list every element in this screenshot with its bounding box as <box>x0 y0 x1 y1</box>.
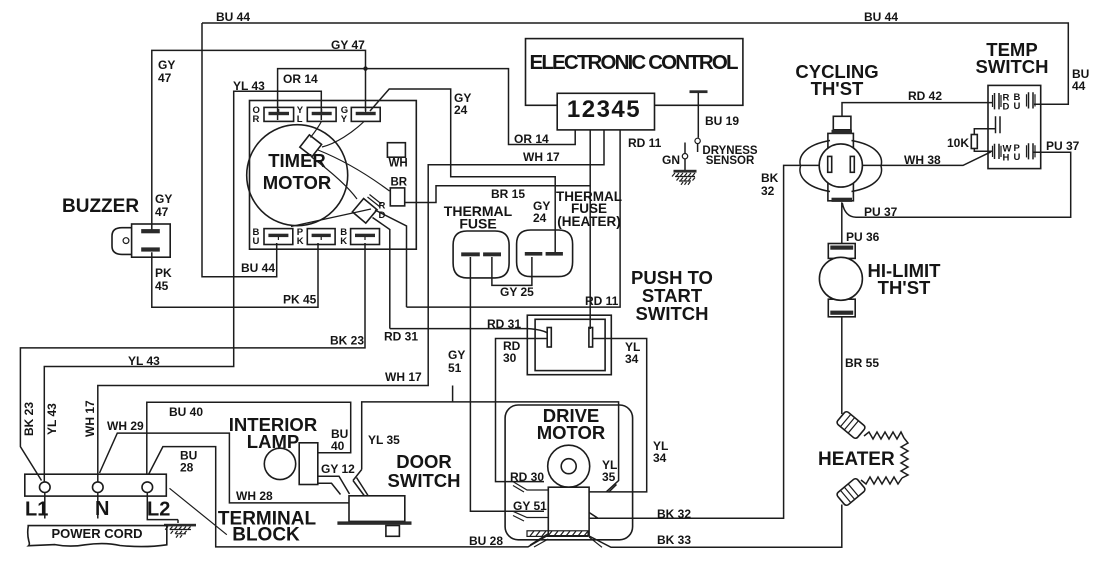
svg-text:H: H <box>1003 153 1010 164</box>
svg-text:BK 33: BK 33 <box>657 533 691 547</box>
svg-text:44: 44 <box>1072 79 1086 93</box>
timer terminal BK <box>340 227 379 247</box>
svg-text:PK: PK <box>155 266 172 280</box>
resistor 10K <box>971 135 977 149</box>
cycling thermostat petals <box>800 141 882 192</box>
wire PK 45 buzzer to timer PK terminal <box>152 243 318 307</box>
wire RD 42 cycling thermostat to temp switch <box>842 103 992 117</box>
svg-text:GY 25: GY 25 <box>500 285 534 299</box>
wire PU 36 cycling to hi-limit <box>841 202 843 243</box>
thermal fuse heater F2 contacts <box>525 252 543 256</box>
power cord box <box>28 526 167 547</box>
svg-text:D: D <box>379 210 386 221</box>
svg-text:MOTOR: MOTOR <box>263 172 332 193</box>
terminal block pointer line <box>170 488 227 534</box>
svg-text:SWITCH: SWITCH <box>388 470 461 491</box>
svg-text:35: 35 <box>602 470 616 484</box>
svg-text:SWITCH: SWITCH <box>636 303 709 324</box>
buzzer <box>112 224 170 257</box>
svg-text:RD 42: RD 42 <box>908 89 942 103</box>
temp switch box <box>988 85 1041 168</box>
wire PU 37 temp switch to cycling thermostat <box>842 152 1070 217</box>
svg-text:BK 32: BK 32 <box>657 507 691 521</box>
svg-text:GY: GY <box>158 58 175 72</box>
timer terminal OR <box>253 105 294 125</box>
svg-text:PU 36: PU 36 <box>846 230 880 244</box>
timer motor box <box>250 101 417 250</box>
timer contact WH <box>387 143 405 158</box>
svg-text:BUZZER: BUZZER <box>62 196 139 217</box>
svg-text:YL 43: YL 43 <box>128 354 160 368</box>
svg-text:GY 47: GY 47 <box>331 38 365 52</box>
electronic control terminal strip 1 2 3 4 5 <box>557 93 654 130</box>
svg-text:BLOCK: BLOCK <box>232 525 300 546</box>
terminal L1 <box>40 482 51 493</box>
svg-text:PK 45: PK 45 <box>283 293 317 307</box>
svg-text:BR 15: BR 15 <box>491 187 525 201</box>
svg-text:47: 47 <box>158 71 172 85</box>
svg-text:SWITCH: SWITCH <box>976 56 1049 77</box>
wire GY 25 thermal fuse to thermal fuse heater <box>492 257 532 285</box>
svg-text:L: L <box>297 114 303 125</box>
svg-text:L1: L1 <box>25 499 48 521</box>
cycling thermostat body rect <box>828 133 854 200</box>
svg-text:BU 19: BU 19 <box>705 114 739 128</box>
wire BK 32 cycling to drive motor <box>589 165 828 518</box>
wire BU 44 top run <box>202 23 1068 104</box>
drive motor notches <box>513 482 602 548</box>
terminal N <box>93 482 104 493</box>
svg-text:RD 11: RD 11 <box>585 294 619 308</box>
temp switch terminal RD <box>993 93 1010 113</box>
svg-text:R: R <box>253 114 260 125</box>
svg-text:RD 30: RD 30 <box>510 470 544 484</box>
svg-text:BK 23: BK 23 <box>330 334 364 348</box>
svg-text:N: N <box>95 498 109 520</box>
svg-text:U: U <box>1014 101 1021 112</box>
wire 10K resistor branch <box>974 129 995 152</box>
svg-text:28: 28 <box>180 461 194 475</box>
svg-text:YL 43: YL 43 <box>233 79 265 93</box>
svg-text:K: K <box>340 236 347 247</box>
svg-text:GY: GY <box>448 348 465 362</box>
wire GY 12 lamp to door switch lever <box>319 476 350 494</box>
svg-text:BR 55: BR 55 <box>845 356 879 370</box>
wire BU 19 dryness sensor <box>690 90 708 152</box>
svg-text:BK 23: BK 23 <box>22 402 36 436</box>
temp switch terminal WH <box>993 144 1012 164</box>
timer motor cam circle <box>247 125 348 226</box>
wire GY 51 thermal fuse to drive motor <box>470 257 544 511</box>
svg-text:RD 31: RD 31 <box>487 317 521 331</box>
svg-text:24: 24 <box>533 211 547 225</box>
svg-text:(HEATER): (HEATER) <box>557 214 621 229</box>
svg-text:BU 40: BU 40 <box>169 405 203 419</box>
svg-text:BU 44: BU 44 <box>864 10 898 24</box>
push to start left pin <box>547 328 551 348</box>
svg-text:TH'ST: TH'ST <box>811 78 864 99</box>
timer terminal GY <box>341 105 380 125</box>
hi-limit thermostat bottom terminal <box>828 299 855 317</box>
svg-text:12345: 12345 <box>567 96 641 123</box>
wire WH 38 cycling thermostat to temp switch <box>853 152 991 166</box>
svg-text:45: 45 <box>155 279 169 293</box>
terminal block stubs <box>45 493 178 520</box>
svg-text:ELECTRONIC CONTROL: ELECTRONIC CONTROL <box>530 51 739 74</box>
svg-text:RD 31: RD 31 <box>384 330 418 344</box>
terminal block body <box>25 474 167 496</box>
svg-text:SENSOR: SENSOR <box>706 155 755 167</box>
svg-text:WH 28: WH 28 <box>236 489 273 503</box>
svg-text:WH: WH <box>389 158 408 170</box>
svg-text:OR 14: OR 14 <box>283 72 318 86</box>
wire RD 11 timer RD to control terminal 4 <box>375 129 620 307</box>
svg-text:WH 38: WH 38 <box>904 153 941 167</box>
thermal fuse F1 body <box>453 231 509 278</box>
svg-text:DOOR: DOOR <box>396 451 452 472</box>
temp switch middle terminal <box>996 116 1001 133</box>
wire BU 28 L2 to drive motor bottom <box>149 447 549 547</box>
svg-text:LAMP: LAMP <box>247 431 299 452</box>
svg-text:40: 40 <box>331 439 345 453</box>
svg-text:L2: L2 <box>147 499 170 521</box>
svg-text:32: 32 <box>761 184 775 198</box>
wire GN ground stub <box>672 143 697 185</box>
svg-text:GY: GY <box>155 192 172 206</box>
drive motor M1 body <box>505 405 632 540</box>
door switch S2 body <box>349 496 405 522</box>
timer terminal YL <box>297 105 336 125</box>
svg-text:YL 43: YL 43 <box>45 403 59 435</box>
hi-limit thermostat disc <box>819 257 862 300</box>
wire BK 33 heater to drive motor <box>589 505 842 548</box>
node junction GY47 x OR14 <box>363 66 367 70</box>
svg-text:HEATER: HEATER <box>818 449 895 470</box>
wire BR 15 timer BR terminal to control terminal 2 and push-to-start <box>405 129 591 329</box>
push to start right pin <box>589 328 593 348</box>
svg-text:U: U <box>1014 152 1021 163</box>
svg-text:U: U <box>253 236 260 247</box>
svg-text:MOTOR: MOTOR <box>537 422 606 443</box>
svg-text:D: D <box>1003 102 1010 113</box>
svg-text:WH 17: WH 17 <box>83 400 97 437</box>
wire GY 24 timer GY terminal to thermal fuse heater <box>370 89 555 252</box>
timer cam curves <box>311 121 322 137</box>
svg-text:10K: 10K <box>947 136 969 150</box>
svg-text:51: 51 <box>448 361 462 375</box>
svg-text:WH 29: WH 29 <box>107 419 144 433</box>
wire YL 35 door switch to drive motor <box>353 402 619 492</box>
thermal fuse heater F2 body <box>517 230 573 277</box>
heater element zigzag <box>861 432 908 484</box>
drive motor rotor <box>548 445 590 487</box>
door switch base plate <box>337 521 411 524</box>
wire BU 44 left leg to timer BU terminal <box>202 23 277 277</box>
timer contact RD diamond <box>352 198 377 223</box>
wire BK 23 timer BK terminal to L1 <box>20 243 365 481</box>
svg-text:K: K <box>297 236 304 247</box>
svg-text:RD 11: RD 11 <box>628 136 662 150</box>
timer cam follower diamond top <box>300 135 322 157</box>
svg-text:TIMER: TIMER <box>268 150 326 171</box>
drive motor bottom hatch <box>527 531 588 537</box>
hi-limit thermostat top terminal <box>828 244 855 259</box>
svg-text:FUSE: FUSE <box>459 216 496 232</box>
electronic control U1 box <box>526 39 743 106</box>
cycling thermostat disc <box>819 144 862 187</box>
wire GY 47 buzzer to timer GY terminal <box>152 50 366 231</box>
svg-text:GN: GN <box>662 153 680 167</box>
svg-text:24: 24 <box>454 103 468 117</box>
svg-text:BK: BK <box>761 171 779 185</box>
cycling thermostat top terminal <box>833 116 851 130</box>
heater top insulator <box>836 411 866 440</box>
wire BR 55 hi-limit to heater <box>841 317 843 414</box>
temp switch terminal PU <box>1014 143 1036 163</box>
svg-text:PU 37: PU 37 <box>864 205 898 219</box>
wire YL 43 timer YL terminal to L1 <box>44 91 321 482</box>
door switch foot <box>386 526 400 537</box>
svg-text:OR 14: OR 14 <box>514 132 549 146</box>
door switch lever <box>353 478 368 497</box>
temp switch terminal BU <box>1014 92 1036 112</box>
svg-text:POWER CORD: POWER CORD <box>52 526 143 541</box>
timer terminal BU <box>253 227 293 247</box>
svg-text:WH 17: WH 17 <box>523 150 560 164</box>
wire RD 31 to push-to-start left pin <box>373 218 548 334</box>
cycling thermostat contacts <box>828 156 832 172</box>
chassis ground at L2 <box>164 520 196 538</box>
svg-text:BU 44: BU 44 <box>241 261 275 275</box>
push to start switch S1 inner <box>535 319 605 370</box>
svg-text:GY 12: GY 12 <box>321 462 355 476</box>
drive motor switch box <box>548 487 589 536</box>
svg-text:47: 47 <box>155 205 169 219</box>
svg-text:PU 37: PU 37 <box>1046 139 1080 153</box>
wire WH 17 control terminal 3 to N <box>98 129 604 482</box>
svg-text:BR: BR <box>391 177 408 189</box>
wire YL 34 push-to-start right pin to drive motor <box>589 339 647 492</box>
svg-text:YL 35: YL 35 <box>368 433 400 447</box>
terminal L2 <box>142 482 153 493</box>
svg-text:GY 51: GY 51 <box>513 499 547 513</box>
svg-text:34: 34 <box>653 451 667 465</box>
interior lamp bulb <box>264 448 295 479</box>
push to start switch S1 outer <box>527 315 611 375</box>
svg-text:30: 30 <box>503 351 517 365</box>
interior lamp base <box>299 443 318 485</box>
svg-text:TH'ST: TH'ST <box>878 277 931 298</box>
svg-text:BU 44: BU 44 <box>216 10 250 24</box>
timer terminal PK <box>297 227 335 247</box>
svg-text:BU 28: BU 28 <box>469 534 503 548</box>
svg-text:WH 17: WH 17 <box>385 370 422 384</box>
svg-text:Y: Y <box>341 114 348 125</box>
wire RD 30 push-to-start left pin to drive motor <box>496 339 548 482</box>
wire WH 29 N to door switch <box>100 433 350 503</box>
wire BU 40 L2 to interior lamp <box>147 402 351 475</box>
svg-text:34: 34 <box>625 352 639 366</box>
thermal fuse F1 contacts <box>461 252 480 256</box>
wire riser WH17 to YL35 line <box>452 386 454 403</box>
wire OR 14 timer OR terminal to control terminal 1 <box>278 69 576 145</box>
heater bottom insulator <box>836 478 866 507</box>
